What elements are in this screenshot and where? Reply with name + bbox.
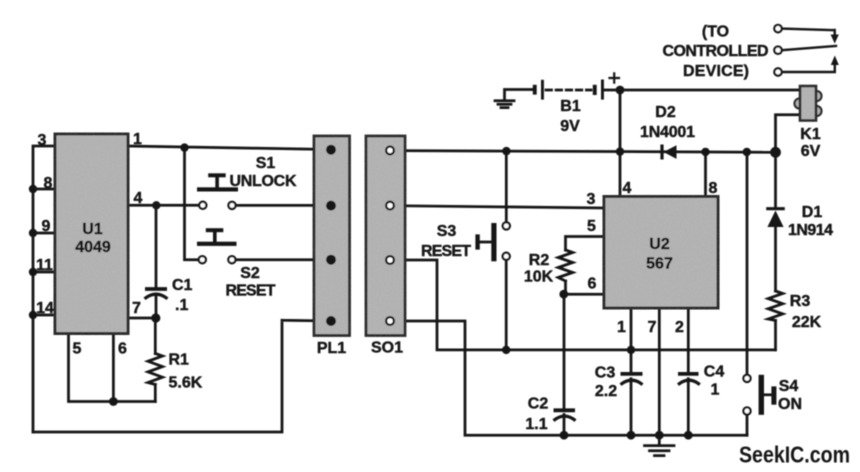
svg-text:11: 11 bbox=[36, 257, 53, 274]
svg-text:PL1: PL1 bbox=[317, 340, 346, 357]
svg-text:D1: D1 bbox=[802, 204, 823, 221]
svg-text:C4: C4 bbox=[704, 364, 725, 381]
svg-text:6: 6 bbox=[588, 276, 597, 293]
svg-text:U1: U1 bbox=[82, 221, 103, 238]
svg-text:B1: B1 bbox=[560, 98, 581, 115]
svg-text:R1: R1 bbox=[169, 352, 190, 369]
svg-text:2.2: 2.2 bbox=[595, 383, 617, 400]
svg-text:2: 2 bbox=[675, 319, 684, 336]
svg-text:1: 1 bbox=[133, 131, 142, 148]
svg-text:RESET: RESET bbox=[421, 243, 471, 260]
svg-text:DEVICE): DEVICE) bbox=[683, 63, 749, 80]
svg-text:1: 1 bbox=[617, 319, 626, 336]
svg-text:5: 5 bbox=[73, 341, 82, 358]
svg-text:6V: 6V bbox=[801, 143, 821, 160]
svg-text:.1: .1 bbox=[175, 297, 188, 314]
svg-text:D2: D2 bbox=[655, 104, 676, 121]
svg-text:S4: S4 bbox=[779, 378, 799, 395]
svg-text:R3: R3 bbox=[790, 293, 811, 310]
svg-text:1N914: 1N914 bbox=[788, 222, 833, 239]
svg-text:(TO: (TO bbox=[702, 24, 729, 41]
svg-text:UNLOCK: UNLOCK bbox=[230, 173, 297, 190]
svg-text:RESET: RESET bbox=[226, 283, 276, 300]
svg-text:7: 7 bbox=[132, 300, 141, 317]
svg-text:8: 8 bbox=[44, 175, 53, 192]
svg-text:U2: U2 bbox=[649, 236, 670, 253]
svg-text:S1: S1 bbox=[256, 155, 276, 172]
svg-text:SeekIC.com: SeekIC.com bbox=[739, 441, 850, 467]
svg-text:14: 14 bbox=[36, 300, 54, 317]
svg-text:5.6K: 5.6K bbox=[169, 375, 203, 392]
svg-text:C1: C1 bbox=[172, 277, 193, 294]
svg-text:R2: R2 bbox=[529, 252, 550, 269]
svg-text:1: 1 bbox=[711, 382, 720, 399]
svg-text:SO1: SO1 bbox=[371, 340, 403, 357]
svg-text:ON: ON bbox=[778, 396, 802, 413]
svg-text:C3: C3 bbox=[595, 365, 616, 382]
svg-text:3: 3 bbox=[587, 191, 596, 208]
svg-text:5: 5 bbox=[587, 218, 596, 235]
svg-text:C2: C2 bbox=[528, 396, 549, 413]
svg-text:9V: 9V bbox=[560, 118, 580, 135]
svg-text:S2: S2 bbox=[240, 265, 260, 282]
svg-text:567: 567 bbox=[646, 256, 673, 273]
svg-text:4: 4 bbox=[134, 190, 143, 207]
svg-text:10K: 10K bbox=[524, 269, 554, 286]
svg-text:3: 3 bbox=[38, 132, 47, 149]
svg-text:S3: S3 bbox=[437, 223, 457, 240]
svg-text:4: 4 bbox=[623, 180, 632, 197]
svg-text:1N4001: 1N4001 bbox=[640, 124, 695, 141]
svg-text:9: 9 bbox=[42, 218, 51, 235]
svg-text:7: 7 bbox=[648, 319, 657, 336]
svg-text:8: 8 bbox=[709, 180, 718, 197]
svg-text:1.1: 1.1 bbox=[525, 416, 547, 433]
svg-text:CONTROLLED: CONTROLLED bbox=[663, 43, 769, 60]
svg-text:22K: 22K bbox=[792, 314, 822, 331]
svg-text:4049: 4049 bbox=[75, 239, 111, 256]
svg-text:K1: K1 bbox=[800, 126, 821, 143]
svg-text:6: 6 bbox=[118, 341, 127, 358]
